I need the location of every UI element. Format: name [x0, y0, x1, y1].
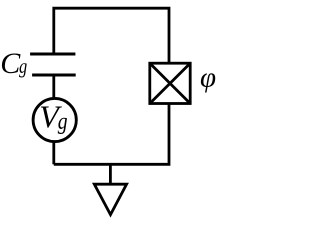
svg-text:g: g	[58, 109, 68, 135]
svg-text:φ: φ	[200, 62, 216, 94]
svg-text:g: g	[19, 54, 27, 78]
